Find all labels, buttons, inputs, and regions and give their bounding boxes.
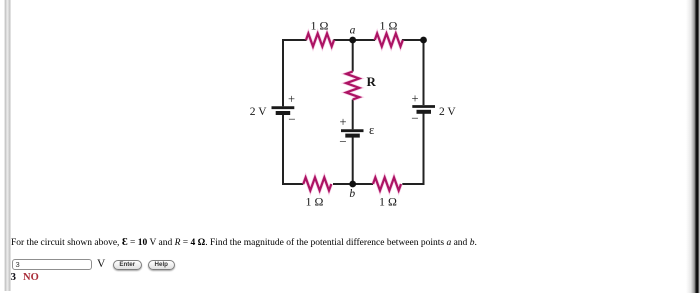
resistor 1ohm top-left — [306, 34, 334, 47]
svg-text:+: + — [339, 115, 346, 129]
svg-text:−: − — [339, 134, 346, 149]
svg-text:a: a — [350, 25, 356, 37]
svg-text:+: + — [288, 92, 295, 106]
left frame scrollbar edge — [4, 0, 11, 291]
svg-text:−: − — [288, 112, 295, 127]
svg-text:1 Ω: 1 Ω — [380, 19, 398, 33]
resistor R (middle vertical) — [346, 72, 359, 100]
svg-text:ε: ε — [369, 123, 374, 137]
resistor 1ohm bottom-right — [373, 178, 401, 191]
svg-text:1 Ω: 1 Ω — [379, 195, 397, 209]
answer input box — [12, 259, 92, 270]
battery emf middle: long plate — [341, 129, 364, 132]
wire top-right segment — [402, 39, 424, 41]
svg-text:+: + — [411, 92, 418, 106]
wire middle branch top (a to R) — [352, 40, 354, 72]
battery 2V right: long plate — [412, 105, 435, 108]
wire right side lower — [423, 113, 425, 185]
battery 2V left: short plate — [276, 111, 291, 115]
svg-text:R: R — [367, 74, 377, 89]
Help button — [148, 260, 175, 271]
node a junction dot — [349, 37, 356, 44]
junction dot top-right corner — [420, 37, 427, 44]
wire top-middle segment (through node a) — [334, 39, 376, 41]
node b junction dot — [349, 181, 356, 188]
wire left side upper — [282, 39, 284, 106]
unit label V — [97, 259, 105, 271]
Enter button — [113, 260, 143, 271]
wire right side upper — [423, 40, 425, 105]
svg-text:1 Ω: 1 Ω — [311, 19, 329, 33]
svg-text:2 V: 2 V — [439, 106, 456, 118]
question text — [11, 237, 477, 249]
wire left side lower — [282, 115, 284, 185]
resistor 1ohm top-right — [375, 34, 403, 47]
resistor 1ohm bottom-left — [303, 178, 331, 191]
battery emf middle: short plate — [345, 134, 360, 138]
wire top-left segment — [283, 39, 307, 41]
wire bottom-left segment — [283, 183, 303, 185]
svg-text:1 Ω: 1 Ω — [306, 195, 324, 209]
grading result NO — [23, 273, 39, 284]
wire bottom-middle segment (through node b) — [333, 183, 373, 185]
svg-text:−: − — [411, 111, 418, 126]
wire middle branch bottom (emf to b) — [352, 137, 354, 185]
battery 2V left: long plate — [272, 106, 295, 109]
svg-text:2 V: 2 V — [250, 106, 267, 118]
submitted answer 3 — [11, 272, 17, 283]
wire bottom-right segment — [402, 183, 423, 185]
svg-text:b: b — [349, 188, 355, 200]
battery 2V right: short plate — [417, 110, 432, 114]
wire middle branch (R to emf) — [352, 100, 354, 130]
right frame dark edge — [686, 0, 700, 293]
